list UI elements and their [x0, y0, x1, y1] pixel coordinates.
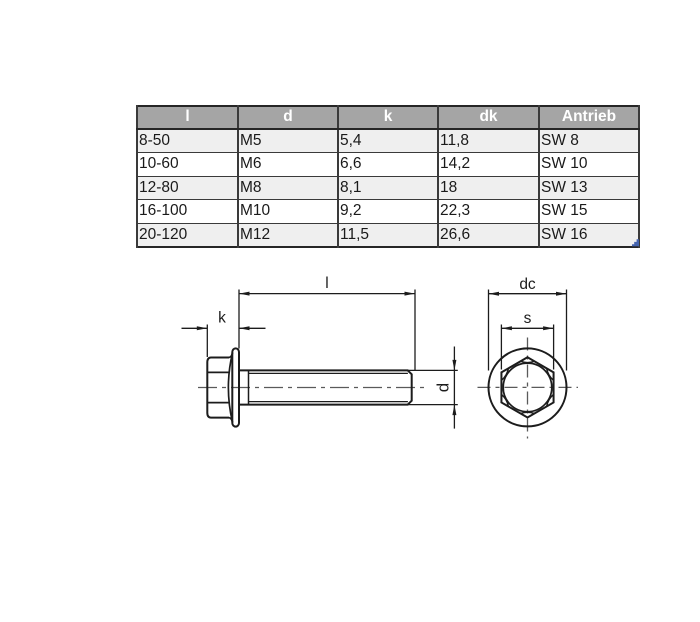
chamfer circle [503, 363, 552, 412]
table row 10-60 [137, 153, 639, 177]
table row 20-120 [137, 223, 639, 247]
dimension l extension right [414, 290, 416, 371]
hexagon head outline [501, 357, 553, 417]
head right silhouette curve [228, 353, 232, 422]
thread minor line upper [249, 372, 408, 374]
head-to-flange fillet top [229, 352, 233, 357]
dimension d line [453, 347, 455, 429]
dimension k extension left [206, 325, 208, 358]
dimension s extension right [553, 325, 555, 370]
dimension dc extension right [566, 290, 568, 371]
blue corner marker [632, 239, 639, 246]
shaft outline [239, 370, 412, 404]
bolt head side view [207, 358, 229, 418]
dimension s extension left [500, 325, 502, 370]
svg-text:k: k [218, 310, 226, 327]
dimension l line [239, 293, 415, 295]
dimension l extension left [238, 290, 240, 349]
centerline horizontal end view [478, 386, 579, 388]
vertex chamfer arc 5 [547, 394, 554, 406]
dimension dc line [489, 293, 567, 295]
vertex chamfer arc 6 [547, 368, 554, 380]
dimension k arrow line right [239, 327, 266, 329]
centerline side view [198, 387, 424, 389]
svg-text:s: s [524, 310, 532, 327]
svg-text:l: l [325, 275, 328, 292]
head face line lower [207, 402, 229, 404]
dimension d extension bottom [408, 404, 458, 406]
dimension s line [501, 327, 553, 329]
vertex chamfer arc 1 [521, 361, 535, 362]
svg-text:dc: dc [519, 276, 536, 293]
table row 16-100 [137, 200, 639, 224]
dimensions table [136, 105, 640, 248]
head face line upper [207, 371, 229, 373]
flange circle [489, 348, 567, 426]
table row 8-50 [137, 129, 639, 153]
svg-text:d: d [433, 383, 452, 392]
dimension d extension top [408, 369, 458, 371]
thread runout line [248, 370, 250, 404]
dimension k arrow line left [182, 327, 208, 329]
dimension dc extension left [488, 290, 490, 371]
centerline vertical end view [527, 338, 529, 439]
table row 12-80 [137, 176, 639, 200]
vertex chamfer arc 3 [501, 394, 508, 406]
thread minor line lower [249, 401, 408, 403]
table header row [137, 106, 639, 247]
vertex chamfer arc 4 [521, 412, 535, 413]
head-to-flange fillet bottom [229, 418, 233, 423]
flange washer (pill) [232, 348, 239, 426]
vertex chamfer arc 2 [501, 368, 508, 380]
